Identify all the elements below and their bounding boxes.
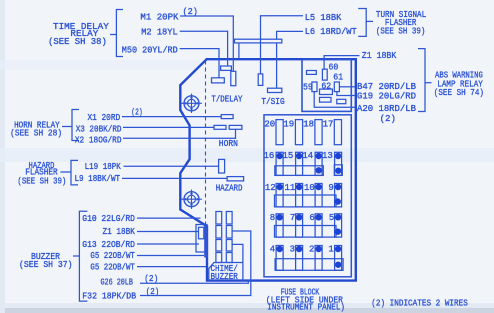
svg-text:G5 22OB/WT: G5 22OB/WT <box>90 262 135 272</box>
svg-text:L9 18BK/WT: L9 18BK/WT <box>75 174 121 184</box>
svg-text:L6 18RD/WT: L6 18RD/WT <box>305 27 358 37</box>
svg-text:11: 11 <box>284 183 295 193</box>
svg-text:4: 4 <box>270 244 275 254</box>
svg-text:G26 20LB: G26 20LB <box>101 277 134 287</box>
svg-text:19: 19 <box>283 119 294 129</box>
svg-text:(SEE SH 38): (SEE SH 38) <box>48 37 107 47</box>
svg-text:60: 60 <box>329 62 339 72</box>
svg-text:G13 22OB/RD: G13 22OB/RD <box>82 240 135 250</box>
svg-text:HAZARD: HAZARD <box>216 183 243 193</box>
svg-text:(SEE SH 39): (SEE SH 39) <box>17 177 66 187</box>
svg-text:A20 18RD/LB: A20 18RD/LB <box>357 104 417 114</box>
svg-text:(2): (2) <box>380 114 396 124</box>
svg-text:M2 18YL: M2 18YL <box>141 27 178 37</box>
svg-text:Z1 18BK: Z1 18BK <box>362 51 397 61</box>
svg-text:L19 18PK: L19 18PK <box>85 162 122 172</box>
svg-text:(SEE SH 28): (SEE SH 28) <box>10 129 62 139</box>
svg-text:10: 10 <box>304 183 315 193</box>
svg-text:G10 22LG/RD: G10 22LG/RD <box>82 214 135 224</box>
svg-text:(SEE SH 37): (SEE SH 37) <box>19 260 73 270</box>
svg-text:(2): (2) <box>144 274 158 284</box>
svg-text:HORN: HORN <box>219 139 238 149</box>
svg-text:G5 22OB/WT: G5 22OB/WT <box>90 251 135 261</box>
svg-text:(SEE SH 39): (SEE SH 39) <box>376 27 426 37</box>
svg-text:M50 20YL/RD: M50 20YL/RD <box>122 45 178 55</box>
svg-text:(2): (2) <box>183 7 198 17</box>
svg-text:20: 20 <box>264 119 275 129</box>
svg-text:7: 7 <box>290 213 295 223</box>
svg-text:(SEE SH 74): (SEE SH 74) <box>434 88 484 98</box>
svg-text:13: 13 <box>322 151 333 161</box>
svg-text:12: 12 <box>265 183 276 193</box>
svg-text:BUZZER: BUZZER <box>211 272 239 282</box>
svg-text:L5 18BK: L5 18BK <box>305 13 342 23</box>
svg-text:17: 17 <box>323 119 334 129</box>
svg-text:59: 59 <box>303 83 313 93</box>
svg-text:62: 62 <box>321 81 331 91</box>
svg-text:18: 18 <box>303 119 314 129</box>
svg-text:16: 16 <box>263 151 274 161</box>
svg-text:1: 1 <box>328 244 333 254</box>
svg-text:2: 2 <box>309 244 314 254</box>
svg-text:INSTRUMENT PANEL): INSTRUMENT PANEL) <box>267 303 345 313</box>
svg-text:15: 15 <box>282 151 293 161</box>
svg-text:M1 20PK: M1 20PK <box>140 12 179 22</box>
svg-text:(2) INDICATES 2 WIRES: (2) INDICATES 2 WIRES <box>371 298 468 308</box>
svg-text:X2 18OG/RD: X2 18OG/RD <box>75 135 122 145</box>
svg-text:3: 3 <box>290 244 295 254</box>
svg-text:F32 18PK/DB: F32 18PK/DB <box>82 292 136 302</box>
svg-text:T/SIG: T/SIG <box>261 97 284 107</box>
svg-text:8: 8 <box>270 213 275 223</box>
svg-text:(2): (2) <box>146 287 159 297</box>
svg-text:G19 20LG/RD: G19 20LG/RD <box>357 91 416 101</box>
svg-text:X3 20BK/RD: X3 20BK/RD <box>76 124 122 134</box>
svg-text:5: 5 <box>329 213 334 223</box>
svg-text:14: 14 <box>302 151 313 161</box>
svg-text:Z1 18BK: Z1 18BK <box>103 227 136 237</box>
svg-text:(2): (2) <box>131 108 142 118</box>
svg-text:61: 61 <box>333 73 343 83</box>
svg-text:9: 9 <box>328 183 333 193</box>
svg-text:X1 20RD: X1 20RD <box>88 113 121 123</box>
svg-text:T/DELAY: T/DELAY <box>211 94 243 104</box>
svg-text:6: 6 <box>309 213 314 223</box>
